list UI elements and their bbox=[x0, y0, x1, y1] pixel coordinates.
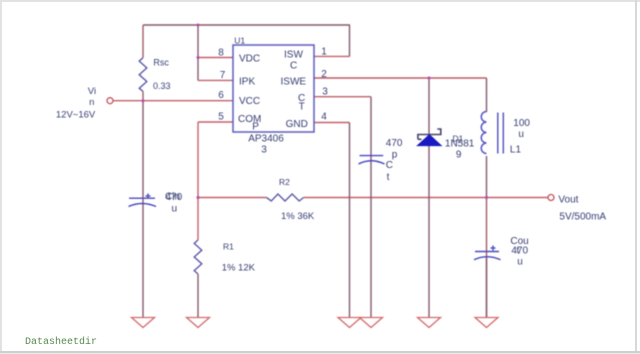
svg-text:Vout: Vout bbox=[558, 195, 578, 206]
ground at pin4 bbox=[338, 318, 361, 328]
svg-text:t: t bbox=[387, 172, 390, 183]
wire R1 bottom to ground bbox=[197, 274, 199, 318]
svg-text:t: t bbox=[517, 245, 520, 256]
terminal Vin port bbox=[107, 98, 113, 104]
svg-text:5V/500mA: 5V/500mA bbox=[559, 211, 606, 222]
svg-text:470: 470 bbox=[166, 192, 183, 203]
wire Cout bottom to ground bbox=[486, 258, 488, 318]
resistor R1 bbox=[194, 240, 202, 274]
wire pin7 stub bbox=[198, 79, 233, 81]
wire vertical from top bus to pin7 bbox=[197, 25, 199, 80]
wire L1 bottom to Vout net bbox=[486, 156, 488, 198]
wire top bus from Rsc top to pin1 riser bbox=[143, 24, 350, 26]
svg-text:4: 4 bbox=[321, 112, 327, 123]
svg-text:1: 1 bbox=[321, 46, 327, 57]
svg-text:T: T bbox=[299, 102, 305, 113]
svg-text:GND: GND bbox=[286, 119, 308, 130]
wire Vout net down to Cout bbox=[486, 198, 488, 318]
svg-text:u: u bbox=[172, 204, 178, 215]
wire Rsc bottom to Vin net bbox=[142, 91, 144, 100]
svg-text:ISW: ISW bbox=[284, 49, 303, 60]
terminal Vout port bbox=[548, 195, 554, 201]
svg-text:u: u bbox=[518, 129, 524, 140]
svg-text:C: C bbox=[290, 61, 297, 72]
wire Vin net down to Cin bbox=[142, 101, 144, 318]
svg-text:3: 3 bbox=[261, 145, 267, 156]
svg-text:0.33: 0.33 bbox=[153, 81, 171, 91]
wire pin2 ISWE to L1 top bbox=[314, 77, 487, 79]
svg-text:9: 9 bbox=[456, 150, 462, 161]
page frame bbox=[0, 0, 640, 2]
wire D1 cathode to switch node bbox=[428, 78, 430, 135]
junction feedback node bbox=[197, 196, 200, 199]
ground at D1 bbox=[418, 318, 441, 328]
svg-text:U1: U1 bbox=[234, 36, 245, 46]
svg-text:470: 470 bbox=[386, 138, 403, 149]
svg-text:ISWE: ISWE bbox=[281, 77, 307, 88]
svg-text:6: 6 bbox=[218, 90, 224, 101]
wire Rsc top riser bbox=[142, 25, 144, 58]
svg-text:7: 7 bbox=[220, 70, 226, 81]
ground at R1 bbox=[187, 318, 210, 328]
svg-text:u: u bbox=[517, 257, 523, 268]
capacitor Ct 470p bbox=[359, 156, 385, 164]
svg-text:C: C bbox=[386, 160, 393, 171]
svg-text:3: 3 bbox=[322, 86, 328, 97]
svg-text:1N581: 1N581 bbox=[445, 139, 475, 150]
wire pin5 COMP stub bbox=[198, 121, 233, 123]
wire L1 top riser bbox=[486, 78, 488, 112]
svg-text:n: n bbox=[89, 97, 94, 108]
wire pin4 GND stub bbox=[314, 122, 350, 124]
inductor L1 100u bbox=[481, 112, 503, 154]
junction top bus / pin7 branch bbox=[197, 24, 200, 27]
capacitor Cout 470u bbox=[474, 246, 501, 260]
svg-text:470: 470 bbox=[511, 245, 528, 256]
wire pin8 stub bbox=[198, 57, 233, 59]
wire pin1 stub bbox=[314, 55, 350, 57]
svg-text:L1: L1 bbox=[510, 145, 522, 156]
junction Vin / Rsc node bbox=[142, 99, 145, 102]
wire feedback node to R2 left bbox=[198, 197, 266, 199]
resistor Rsc bbox=[139, 58, 147, 92]
svg-text:12V~16V: 12V~16V bbox=[56, 110, 96, 121]
watermark Datasheetdir bbox=[25, 337, 97, 348]
svg-text:IPK: IPK bbox=[239, 77, 255, 88]
svg-text:2: 2 bbox=[321, 69, 327, 80]
wire feedback node down to R1 bbox=[197, 198, 199, 241]
resistor R2 bbox=[266, 194, 303, 201]
svg-text:Vi: Vi bbox=[88, 86, 96, 97]
svg-text:8: 8 bbox=[218, 48, 224, 59]
svg-text:100: 100 bbox=[513, 118, 530, 129]
wire pin1 riser to top bus bbox=[349, 25, 351, 56]
op-amp U1 AP34063 IC body bbox=[233, 45, 314, 132]
svg-text:VDC: VDC bbox=[239, 53, 260, 64]
wire pin3 CT stub bbox=[314, 96, 371, 98]
ground at Cout bbox=[475, 318, 498, 328]
svg-text:P: P bbox=[252, 122, 259, 133]
wire D1 anode to ground bbox=[428, 146, 430, 318]
capacitor Cin 470u bbox=[129, 194, 157, 207]
wire CT riser down to cap bbox=[370, 97, 372, 318]
junction Vout node at L1/Cout bbox=[485, 196, 488, 199]
ground at Ct bbox=[360, 318, 383, 328]
junction pin8 branch bbox=[197, 56, 200, 59]
svg-text:1% 12K: 1% 12K bbox=[222, 263, 256, 274]
svg-text:VCC: VCC bbox=[239, 96, 260, 107]
wire R2 right to Vout terminal bbox=[304, 197, 548, 199]
diode D1 1N5819 schottky bbox=[417, 129, 441, 146]
wire pin5 riser down to feedback node bbox=[197, 122, 199, 198]
wire pin4 GND down to ground bbox=[349, 123, 351, 318]
svg-text:R1: R1 bbox=[223, 242, 234, 252]
svg-text:AP3406: AP3406 bbox=[248, 134, 284, 145]
wire Vin to pin6 VCC bbox=[113, 100, 233, 102]
svg-text:R2: R2 bbox=[279, 177, 290, 187]
svg-text:1% 36K: 1% 36K bbox=[281, 211, 315, 222]
svg-text:Rsc: Rsc bbox=[153, 58, 169, 68]
junction switch node at D1 bbox=[428, 77, 431, 80]
svg-text:5: 5 bbox=[218, 112, 224, 123]
ground at Cin bbox=[132, 318, 155, 328]
